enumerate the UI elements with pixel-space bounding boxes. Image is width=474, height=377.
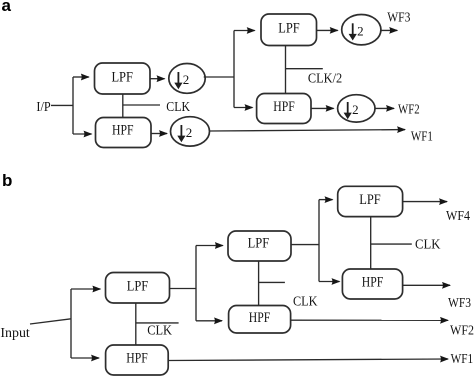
wire branch vertical (b level 1) [70, 289, 72, 358]
wire arrow U6 to WF1 [168, 359, 448, 361]
svg-text:WF3: WF3 [448, 295, 471, 310]
filter box U2 HPF [96, 118, 152, 148]
svg-text:LPF: LPF [127, 278, 149, 294]
downsampler D2 [171, 117, 210, 146]
wire arrow into HPF U10 [319, 281, 340, 283]
svg-text:LPF: LPF [359, 192, 381, 208]
downsampler D4 [338, 95, 375, 122]
svg-text:WF1: WF1 [411, 129, 433, 144]
downsampler D3 [342, 15, 381, 45]
svg-text:2: 2 [357, 23, 364, 38]
wire arrow U10 to WF3 [403, 284, 450, 286]
filter box U8 HPF [229, 306, 291, 334]
wire CLK stub vertical U7 to U8 [258, 261, 260, 306]
wire CLK overline (b level 1) [136, 322, 179, 324]
svg-text:2: 2 [186, 125, 193, 140]
svg-text:LPF: LPF [278, 20, 300, 36]
wire branch vertical (a level 2) [233, 31, 235, 108]
svg-text:WF4: WF4 [446, 208, 470, 223]
filter box U7 LPF [228, 231, 291, 261]
filter box U6 HPF [106, 345, 169, 375]
filter box U10 HPF [342, 269, 402, 299]
wire CLK stub horizontal (b level 2) [259, 281, 285, 283]
wire arrow into LPF U1 [73, 76, 89, 78]
svg-text:WF3: WF3 [387, 9, 410, 24]
svg-text:Input: Input [0, 325, 30, 340]
svg-text:a: a [2, 0, 12, 15]
wire branch vertical (a level 1) [72, 77, 74, 134]
wire arrow U9 to WF4 [403, 201, 447, 203]
wire CLK stub horizontal [123, 104, 160, 106]
wire arrow into HPF U4 [234, 107, 253, 109]
svg-text:2: 2 [183, 72, 190, 87]
wire CLK stub vertical U5 to U6 [135, 303, 137, 345]
svg-text:LPF: LPF [111, 69, 133, 85]
svg-text:WF2: WF2 [398, 101, 420, 116]
svg-text:CLK/2: CLK/2 [308, 70, 342, 85]
wire from I/P to branch point [51, 104, 73, 106]
wire arrow U3 to downsampler D3 [317, 29, 338, 31]
wire arrow D2 to WF1 [210, 130, 406, 131]
svg-text:WF1: WF1 [451, 351, 474, 366]
svg-text:HPF: HPF [126, 351, 148, 367]
svg-text:CLK: CLK [166, 99, 190, 114]
wire arrow into HPF U8 [196, 320, 222, 322]
wire arrow into LPF U7 [196, 245, 223, 247]
svg-text:2: 2 [352, 102, 359, 117]
wire arrow U1 to downsampler D1 [150, 78, 165, 80]
wire CLK/2 stub horizontal [286, 68, 323, 70]
wire CLK stub horizontal (b level 3) [371, 243, 412, 245]
wire arrow D3 to WF3 [381, 29, 397, 31]
wire arrow into LPF U9 [319, 199, 333, 201]
svg-text:CLK: CLK [293, 294, 318, 309]
wire CLK stub vertical U9 to U10 [370, 217, 372, 269]
filter box U9 LPF [338, 186, 403, 216]
svg-text:HPF: HPF [112, 123, 134, 139]
wire U5 to branch (b level 2) [170, 288, 197, 290]
wire arrow D4 to WF2 [375, 107, 394, 109]
wire arrow U2 to downsampler D2 [151, 133, 167, 135]
wire U7 to branch (b level 3) [291, 244, 319, 246]
wire CLK stub vertical U1 to U2 [122, 94, 124, 118]
wire arrow into LPF U5 [71, 288, 100, 290]
wire arrow U4 to downsampler D4 [311, 107, 334, 109]
svg-text:LPF: LPF [248, 235, 270, 251]
filter box U5 LPF [106, 273, 170, 304]
wire branch vertical (b level 3) [318, 200, 320, 282]
wire D1 to branch (a level 2) [204, 76, 234, 78]
wire arrow into HPF U2 [73, 133, 92, 135]
wire arrow U8 to WF2 [291, 319, 448, 321]
svg-text:b: b [2, 171, 12, 190]
svg-text:HPF: HPF [273, 99, 295, 115]
svg-text:I/P: I/P [36, 99, 51, 114]
downsampler D1 [169, 64, 205, 94]
wire branch vertical (b level 2) [195, 246, 197, 321]
svg-text:HPF: HPF [362, 275, 384, 291]
filter box U1 LPF [95, 63, 151, 94]
svg-text:CLK: CLK [147, 323, 172, 338]
svg-text:HPF: HPF [249, 310, 271, 326]
wire arrow into HPF U6 [71, 357, 99, 359]
wire CLK/2 stub vertical U3 to U4 [285, 46, 287, 94]
wire arrow into LPF U3 [234, 30, 255, 32]
filter box U4 HPF [257, 94, 311, 124]
svg-text:CLK: CLK [415, 237, 441, 252]
wire from Input to branch point [30, 319, 71, 324]
svg-text:WF2: WF2 [450, 322, 474, 337]
filter box U3 LPF [261, 14, 317, 46]
